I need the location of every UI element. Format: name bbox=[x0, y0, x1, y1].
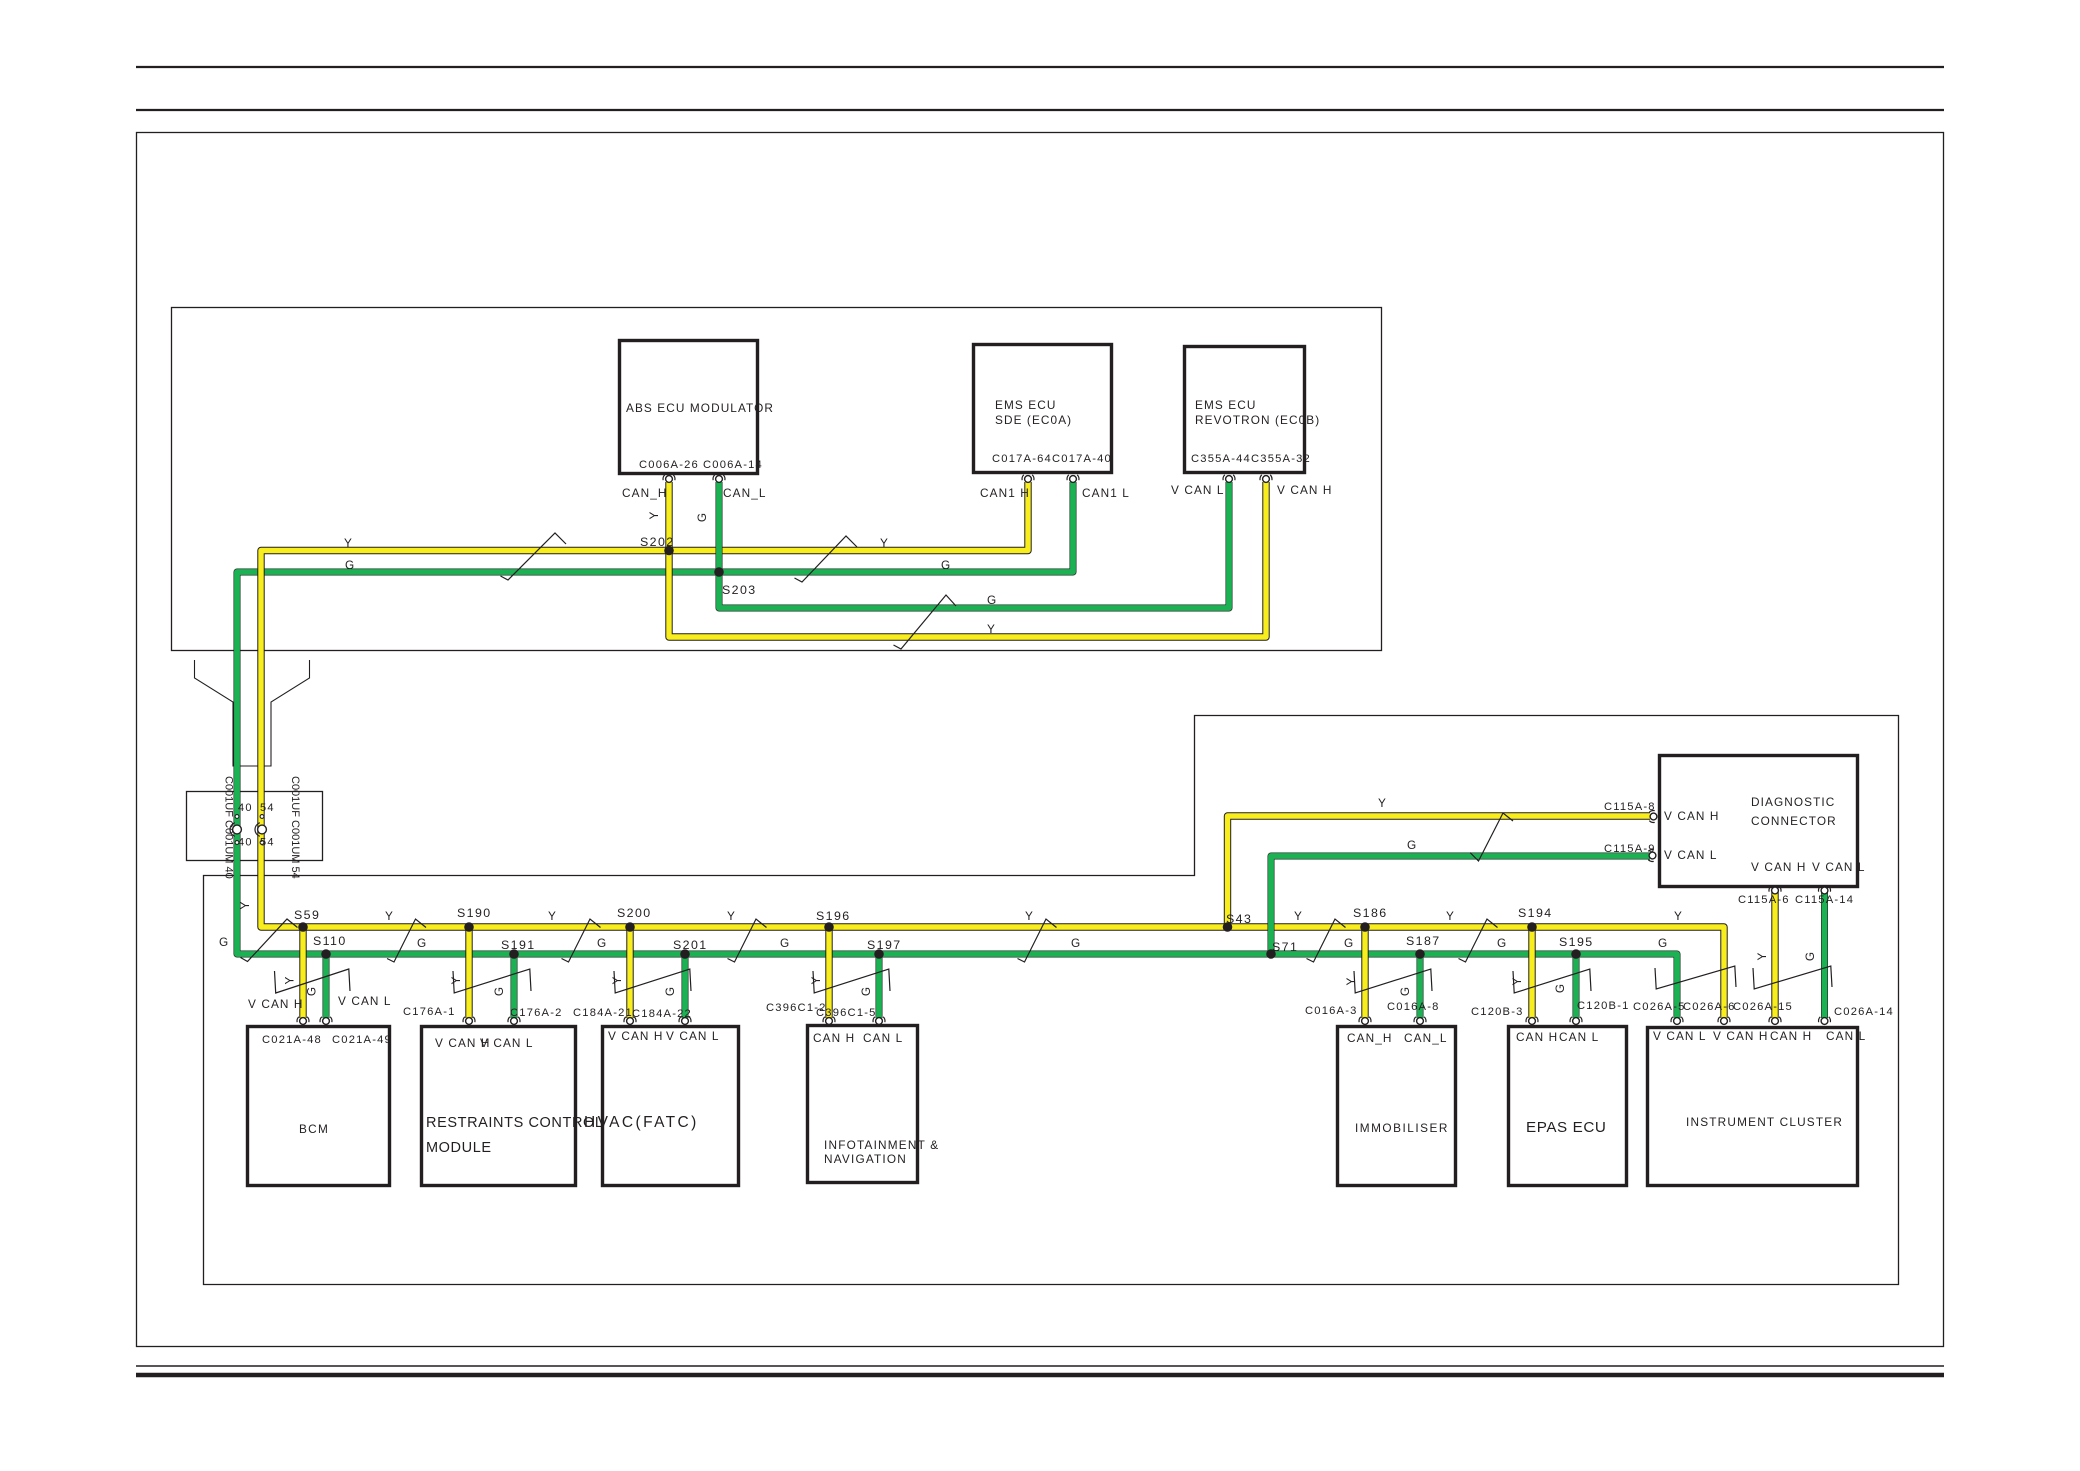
svg-text:S202: S202 bbox=[640, 535, 675, 549]
pin circle ABS C006A-26 bbox=[663, 475, 675, 480]
svg-text:V CAN L: V CAN L bbox=[1812, 860, 1866, 874]
svg-text:Y: Y bbox=[283, 976, 297, 985]
svg-text:CAN_L: CAN_L bbox=[1404, 1031, 1448, 1045]
svg-text:INFOTAINMENT &: INFOTAINMENT & bbox=[824, 1138, 939, 1152]
wire yellow S186 drop to immobiliser C016A-3 bbox=[1361, 927, 1368, 1018]
wire yellow riser S43 to diagnostic connector C115A-8 bbox=[1228, 816, 1651, 927]
pin circle SDE C017A-64 bbox=[1022, 475, 1034, 480]
twisted pair symbol main bus 6 bbox=[1307, 919, 1346, 962]
svg-text:EMS ECU: EMS ECU bbox=[995, 398, 1056, 412]
junction S71 bbox=[1266, 949, 1276, 959]
svg-text:G: G bbox=[417, 936, 427, 950]
junction S200 bbox=[625, 922, 635, 932]
svg-text:MODULE: MODULE bbox=[426, 1140, 492, 1156]
svg-text:IMMOBILISER: IMMOBILISER bbox=[1355, 1121, 1449, 1135]
pin circle diagnostic C115A-6 bbox=[1769, 886, 1781, 891]
wire green riser S71 to diagnostic connector C115A-9 bbox=[1271, 856, 1650, 954]
svg-text:C016A-3: C016A-3 bbox=[1305, 1005, 1358, 1017]
junction S191 bbox=[509, 949, 519, 959]
svg-text:INSTRUMENT CLUSTER: INSTRUMENT CLUSTER bbox=[1686, 1115, 1843, 1129]
pin circle IC C026A-15 bbox=[1769, 1017, 1781, 1022]
svg-text:G: G bbox=[219, 935, 229, 949]
twisted pair symbol immobiliser drops bbox=[1354, 969, 1432, 993]
junction S110 bbox=[321, 949, 331, 959]
junction S194 bbox=[1527, 922, 1537, 932]
twisted pair symbol main bus 1 bbox=[241, 919, 298, 962]
svg-text:CAN1 L: CAN1 L bbox=[1082, 486, 1130, 500]
svg-text:G: G bbox=[695, 512, 709, 522]
page header rule lower bbox=[136, 109, 1944, 111]
svg-text:C184A-21: C184A-21 bbox=[573, 1007, 633, 1019]
svg-text:C021A-49: C021A-49 bbox=[332, 1034, 392, 1046]
svg-text:40: 40 bbox=[238, 802, 253, 814]
svg-text:EMS ECU: EMS ECU bbox=[1195, 398, 1256, 412]
svg-text:S201: S201 bbox=[673, 938, 708, 952]
svg-text:SDE (EC0A): SDE (EC0A) bbox=[995, 413, 1072, 427]
twisted pair symbol BCM drops bbox=[275, 969, 351, 993]
svg-text:G: G bbox=[1071, 936, 1081, 950]
twisted pair symbol engine branch pair bbox=[894, 595, 957, 649]
svg-text:Y: Y bbox=[449, 976, 463, 985]
wire green ABS CAN_L branch to EMS REVOTRON V CAN L bbox=[719, 482, 1229, 608]
svg-text:S190: S190 bbox=[457, 906, 492, 920]
svg-text:C176A-1: C176A-1 bbox=[403, 1006, 456, 1018]
svg-text:G: G bbox=[780, 936, 790, 950]
pin circle immobiliser C016A-8 bbox=[1414, 1017, 1426, 1022]
svg-text:S196: S196 bbox=[816, 909, 851, 923]
module IMMOBILISER box bbox=[1338, 1027, 1456, 1186]
wire yellow S194 drop to EPAS C120B-3 bbox=[1528, 927, 1535, 1018]
pin circle HVAC C184A-21 bbox=[624, 1017, 636, 1022]
pin circle REVOTRON C355A-44 bbox=[1223, 475, 1235, 480]
inline connector C001 pin 54 bbox=[260, 815, 264, 819]
svg-text:REVOTRON (EC0B): REVOTRON (EC0B) bbox=[1195, 413, 1320, 427]
svg-text:EPAS ECU: EPAS ECU bbox=[1526, 1119, 1606, 1136]
svg-text:Y: Y bbox=[1025, 909, 1034, 923]
module HVAC box bbox=[603, 1027, 739, 1186]
svg-text:S59: S59 bbox=[294, 908, 320, 922]
svg-text:S203: S203 bbox=[722, 583, 757, 597]
svg-text:V CAN L: V CAN L bbox=[1171, 483, 1225, 497]
svg-text:40: 40 bbox=[238, 837, 253, 849]
svg-text:54: 54 bbox=[260, 802, 275, 814]
wire green S191 drop to RCM C176A-2 bbox=[511, 954, 518, 1018]
module EMS ECU REVOTRON box bbox=[1185, 347, 1305, 473]
svg-text:Y: Y bbox=[1446, 909, 1455, 923]
junction S190 bbox=[464, 922, 474, 932]
wire green V CAN L main bus (EMS SDE CAN1 L to instrument cluster C026A-6) bbox=[237, 482, 1677, 1018]
svg-text:Y: Y bbox=[880, 536, 889, 550]
svg-text:CAN_H: CAN_H bbox=[622, 486, 668, 500]
svg-text:CAN1 H: CAN1 H bbox=[980, 486, 1030, 500]
pin circle diagnostic C115A-14 bbox=[1818, 886, 1830, 891]
svg-text:G: G bbox=[859, 986, 873, 996]
svg-text:V CAN L: V CAN L bbox=[338, 994, 392, 1008]
svg-text:G: G bbox=[492, 986, 506, 996]
svg-text:Y: Y bbox=[1378, 796, 1387, 810]
engine compartment boundary box bbox=[172, 308, 1382, 651]
svg-text:V CAN H: V CAN H bbox=[248, 997, 304, 1011]
svg-text:G: G bbox=[597, 936, 607, 950]
svg-text:G: G bbox=[663, 986, 677, 996]
wire yellow S190 drop to RCM C176A-1 bbox=[465, 927, 472, 1018]
outer diagram border bbox=[137, 133, 1944, 1347]
twisted pair symbol main bus 7 bbox=[1459, 919, 1498, 962]
svg-text:C001UF C001UM 40: C001UF C001UM 40 bbox=[223, 776, 235, 879]
svg-text:CAN H: CAN H bbox=[813, 1031, 855, 1045]
pin circle SDE C017A-40 bbox=[1067, 475, 1079, 480]
svg-text:C026A-15: C026A-15 bbox=[1733, 1001, 1793, 1013]
svg-text:Y: Y bbox=[727, 909, 736, 923]
pin circle infotainment C396C1-5 bbox=[873, 1017, 885, 1022]
pin circle IC C026A-6 bbox=[1671, 1017, 1683, 1022]
pin circle ABS C006A-14 bbox=[713, 475, 725, 480]
wire green diagnostic C115A-14 drop to instrument cluster CAN L bbox=[1821, 892, 1828, 1018]
svg-text:C115A-8: C115A-8 bbox=[1604, 801, 1656, 813]
svg-text:Y: Y bbox=[1344, 977, 1358, 986]
svg-text:Y: Y bbox=[809, 976, 823, 985]
svg-text:C355A-32: C355A-32 bbox=[1251, 453, 1311, 465]
svg-text:G: G bbox=[987, 593, 997, 607]
svg-text:C017A-40: C017A-40 bbox=[1052, 453, 1112, 465]
svg-text:C115A-9: C115A-9 bbox=[1604, 843, 1656, 855]
svg-text:CAN L: CAN L bbox=[1559, 1030, 1599, 1044]
svg-text:V CAN H: V CAN H bbox=[1751, 860, 1807, 874]
svg-text:CONNECTOR: CONNECTOR bbox=[1751, 814, 1837, 828]
svg-text:NAVIGATION: NAVIGATION bbox=[824, 1152, 907, 1166]
svg-text:CAN H: CAN H bbox=[1770, 1029, 1812, 1043]
twisted pair symbol RCM drops bbox=[453, 969, 531, 993]
junction S197 bbox=[874, 949, 884, 959]
pin circle IC C026A-5 bbox=[1718, 1017, 1730, 1022]
svg-text:CAN L: CAN L bbox=[1826, 1029, 1866, 1043]
twisted pair symbol main bus 2 bbox=[387, 919, 426, 962]
svg-text:C115A-6: C115A-6 bbox=[1738, 894, 1790, 906]
twisted pair symbol instrument cluster CAN drops bbox=[1753, 966, 1832, 989]
twisted pair symbol instrument cluster V CAN drops bbox=[1655, 966, 1736, 989]
svg-text:S186: S186 bbox=[1353, 906, 1388, 920]
svg-text:S187: S187 bbox=[1406, 934, 1441, 948]
wire yellow V CAN H main bus (EMS SDE CAN1 H to instrument cluster C026A-5) bbox=[261, 482, 1724, 1018]
twisted pair symbol main bus 5 bbox=[1018, 919, 1057, 962]
svg-text:S200: S200 bbox=[617, 906, 652, 920]
twisted pair symbol infotainment drops bbox=[813, 969, 890, 993]
svg-text:G: G bbox=[1803, 951, 1817, 961]
pin circle BCM C021A-49 bbox=[320, 1017, 332, 1022]
module RESTRAINTS CONTROL MODULE box bbox=[422, 1027, 576, 1186]
svg-text:C001UF C001UM 54: C001UF C001UM 54 bbox=[289, 776, 301, 879]
wire yellow ABS CAN_H branch to EMS REVOTRON V CAN H bbox=[669, 482, 1266, 637]
svg-text:C184A-22: C184A-22 bbox=[632, 1008, 692, 1020]
pin circle infotainment C396C1-2 bbox=[823, 1017, 835, 1022]
page header rule top bbox=[136, 66, 1944, 68]
module BCM box bbox=[248, 1027, 390, 1186]
passenger compartment boundary outline bbox=[204, 716, 1899, 1285]
svg-text:Y: Y bbox=[548, 909, 557, 923]
wire yellow S196 drop to infotainment C396C1-2 bbox=[825, 927, 832, 1018]
svg-text:RESTRAINTS CONTROL: RESTRAINTS CONTROL bbox=[426, 1115, 604, 1131]
svg-text:Y: Y bbox=[1755, 952, 1769, 961]
pin circle diagnostic C115A-9 bbox=[1648, 849, 1653, 861]
svg-text:C120B-1: C120B-1 bbox=[1577, 1000, 1630, 1012]
junction S196 bbox=[824, 922, 834, 932]
module INSTRUMENT CLUSTER box bbox=[1648, 1028, 1858, 1186]
svg-text:Y: Y bbox=[238, 901, 252, 910]
svg-text:C120B-3: C120B-3 bbox=[1471, 1006, 1524, 1018]
wire green S187 drop to immobiliser C016A-8 bbox=[1417, 954, 1424, 1018]
junction S195 bbox=[1571, 949, 1581, 959]
pin circle EPAS C120B-3 bbox=[1526, 1017, 1538, 1022]
svg-text:G: G bbox=[1407, 838, 1417, 852]
svg-text:V CAN L: V CAN L bbox=[480, 1036, 534, 1050]
svg-text:C017A-64: C017A-64 bbox=[992, 453, 1052, 465]
pin circle EPAS C120B-1 bbox=[1570, 1017, 1582, 1022]
wire yellow diagnostic C115A-6 drop to instrument cluster CAN H bbox=[1771, 892, 1778, 1018]
svg-text:V CAN L: V CAN L bbox=[1664, 848, 1718, 862]
svg-text:V CAN L: V CAN L bbox=[666, 1029, 720, 1043]
svg-text:G: G bbox=[941, 558, 951, 572]
pin circle diagnostic C115A-8 bbox=[1649, 810, 1654, 822]
svg-text:Y: Y bbox=[647, 511, 661, 520]
svg-text:Y: Y bbox=[987, 622, 996, 636]
svg-text:C016A-8: C016A-8 bbox=[1387, 1001, 1440, 1013]
svg-text:Y: Y bbox=[344, 536, 353, 550]
module EPAS ECU box bbox=[1509, 1027, 1627, 1186]
svg-text:CAN H: CAN H bbox=[1516, 1030, 1558, 1044]
twisted pair symbol main bus 4 bbox=[728, 919, 767, 962]
svg-text:G: G bbox=[1398, 986, 1412, 996]
svg-text:C026A-14: C026A-14 bbox=[1834, 1006, 1894, 1018]
svg-text:V CAN L: V CAN L bbox=[1653, 1029, 1707, 1043]
wire green S110 drop to BCM C021A-49 bbox=[323, 954, 330, 1018]
harness funnel through bulkhead bbox=[195, 660, 310, 766]
svg-text:C026A-5: C026A-5 bbox=[1633, 1001, 1686, 1013]
svg-text:S195: S195 bbox=[1559, 935, 1594, 949]
svg-text:G: G bbox=[345, 558, 355, 572]
svg-text:Y: Y bbox=[1674, 909, 1683, 923]
svg-text:G: G bbox=[1553, 983, 1567, 993]
twisted pair symbol EPAS drops bbox=[1513, 969, 1591, 993]
module INFOTAINMENT box bbox=[808, 1026, 918, 1183]
pin circle IC C026A-14 bbox=[1818, 1017, 1830, 1022]
svg-text:DIAGNOSTIC: DIAGNOSTIC bbox=[1751, 795, 1835, 809]
twisted pair symbol engine bus left bbox=[501, 533, 567, 580]
svg-text:G: G bbox=[1658, 936, 1668, 950]
svg-text:Y: Y bbox=[610, 976, 624, 985]
svg-text:C396C1-5: C396C1-5 bbox=[816, 1007, 877, 1019]
svg-text:G: G bbox=[1344, 936, 1354, 950]
pin circle HVAC C184A-22 bbox=[679, 1017, 691, 1022]
svg-text:V CAN H: V CAN H bbox=[1713, 1029, 1769, 1043]
svg-text:CAN_L: CAN_L bbox=[723, 486, 767, 500]
junction S59 bbox=[298, 922, 308, 932]
svg-text:C355A-44: C355A-44 bbox=[1191, 453, 1251, 465]
twisted pair symbol diagnostic runs bbox=[1470, 813, 1513, 861]
junction S43 bbox=[1223, 922, 1233, 932]
svg-text:S194: S194 bbox=[1518, 906, 1553, 920]
svg-text:Y: Y bbox=[1294, 909, 1303, 923]
wire yellow S59 drop to BCM C021A-48 bbox=[299, 927, 306, 1018]
pin circle immobiliser C016A-3 bbox=[1359, 1017, 1371, 1022]
svg-text:BCM: BCM bbox=[299, 1122, 329, 1136]
module EMS ECU SDE box bbox=[974, 345, 1112, 473]
svg-text:CAN L: CAN L bbox=[863, 1031, 903, 1045]
junction S187 bbox=[1415, 949, 1425, 959]
svg-text:C176A-2: C176A-2 bbox=[510, 1007, 563, 1019]
wire green S195 drop to EPAS C120B-1 bbox=[1573, 954, 1580, 1018]
wire green S197 drop to infotainment C396C1-5 bbox=[876, 954, 883, 1018]
svg-text:ABS ECU MODULATOR: ABS ECU MODULATOR bbox=[626, 401, 774, 415]
svg-text:C006A-26: C006A-26 bbox=[639, 459, 699, 471]
svg-text:V CAN H: V CAN H bbox=[1277, 483, 1333, 497]
svg-text:54: 54 bbox=[260, 837, 275, 849]
twisted pair symbol HVAC drops bbox=[614, 969, 691, 993]
svg-text:Y: Y bbox=[385, 909, 394, 923]
module DIAGNOSTIC CONNECTOR box bbox=[1660, 756, 1858, 887]
svg-text:S110: S110 bbox=[313, 934, 347, 948]
svg-text:HVAC(FATC): HVAC(FATC) bbox=[584, 1114, 699, 1131]
svg-text:S191: S191 bbox=[501, 938, 536, 952]
page footer rule thick bbox=[136, 1373, 1944, 1378]
svg-text:S43: S43 bbox=[1226, 912, 1252, 926]
svg-text:Y: Y bbox=[1510, 977, 1524, 986]
pin circle BCM C021A-48 bbox=[297, 1017, 309, 1022]
connector C001 box bbox=[187, 792, 323, 861]
svg-text:G: G bbox=[1497, 936, 1507, 950]
pin circle RCM C176A-1 bbox=[463, 1017, 475, 1022]
svg-text:S197: S197 bbox=[867, 938, 902, 952]
svg-text:V CAN H: V CAN H bbox=[1664, 809, 1720, 823]
junction S201 bbox=[680, 949, 690, 959]
module ABS ECU MODULATOR box bbox=[620, 341, 758, 474]
twisted pair symbol engine bus right bbox=[795, 536, 858, 582]
svg-text:V CAN H: V CAN H bbox=[608, 1029, 664, 1043]
svg-text:S71: S71 bbox=[1272, 940, 1298, 954]
svg-text:CAN_H: CAN_H bbox=[1347, 1031, 1393, 1045]
svg-text:G: G bbox=[305, 986, 319, 996]
wire green S201 drop to HVAC C184A-22 bbox=[682, 954, 689, 1018]
page footer rule thin bbox=[136, 1365, 1944, 1367]
twisted pair symbol main bus 3 bbox=[562, 919, 601, 962]
wire yellow S200 drop to HVAC C184A-21 bbox=[626, 927, 633, 1018]
svg-text:C021A-48: C021A-48 bbox=[262, 1034, 322, 1046]
junction S203 bbox=[714, 567, 724, 577]
junction S202 bbox=[664, 546, 674, 556]
svg-text:C006A-14: C006A-14 bbox=[703, 459, 763, 471]
svg-text:C115A-14: C115A-14 bbox=[1795, 894, 1854, 906]
svg-text:C026A-6: C026A-6 bbox=[1683, 1001, 1736, 1013]
pin circle REVOTRON C355A-32 bbox=[1260, 475, 1272, 480]
junction S186 bbox=[1360, 922, 1370, 932]
inline connector C001 pin 40 bbox=[235, 815, 239, 819]
pin circle RCM C176A-2 bbox=[508, 1017, 520, 1022]
